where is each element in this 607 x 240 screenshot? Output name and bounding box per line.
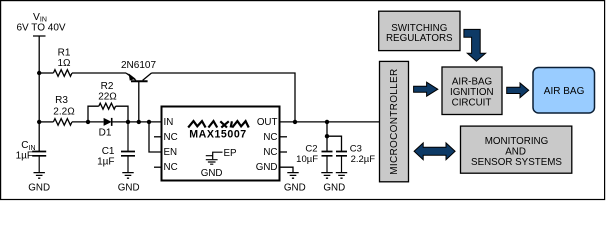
capacitor C1	[127, 122, 129, 172]
arrow microcontroller to monitoring (double)	[414, 143, 455, 160]
block MONITORING AND SENSOR SYSTEMS	[461, 126, 572, 173]
node C2/C3 branch	[325, 134, 329, 138]
ground	[206, 160, 218, 165]
diode D1	[104, 118, 112, 126]
svg-text:1Ω: 1Ω	[57, 58, 71, 69]
node R3/R2/D1	[86, 120, 90, 124]
transistor emitter arrow	[129, 73, 136, 80]
pin stub NC left	[154, 136, 162, 138]
svg-text:OUT: OUT	[257, 117, 278, 128]
node C2 top	[325, 120, 329, 124]
wire EN	[149, 122, 162, 152]
svg-text:REGULATORS: REGULATORS	[386, 33, 453, 44]
svg-text:2.2Ω: 2.2Ω	[53, 106, 75, 117]
svg-text:EN: EN	[164, 147, 178, 158]
svg-text:NC: NC	[263, 132, 277, 143]
pin stub NC left lower	[154, 166, 162, 168]
svg-text:GND: GND	[28, 183, 50, 194]
MAXIM logo	[188, 121, 249, 127]
resistor R3	[53, 119, 72, 126]
ground	[34, 173, 45, 179]
node base	[137, 120, 141, 124]
svg-text:GND: GND	[256, 162, 278, 173]
pin stub NC right	[280, 136, 288, 138]
svg-text:NC: NC	[164, 132, 178, 143]
ground	[287, 173, 298, 179]
wire	[39, 72, 53, 74]
block SWITCHING REGULATORS	[379, 11, 460, 50]
ground	[321, 173, 332, 179]
node EN	[147, 120, 151, 124]
wire R2 branch right	[116, 106, 128, 122]
svg-text:SENSOR SYSTEMS: SENSOR SYSTEMS	[471, 157, 562, 168]
svg-text:1µF: 1µF	[16, 151, 33, 162]
svg-text:AND: AND	[505, 147, 526, 158]
svg-text:R2: R2	[101, 81, 114, 92]
svg-text:NC: NC	[164, 162, 178, 173]
wire	[39, 121, 53, 123]
capacitor C3	[341, 156, 343, 173]
svg-text:CIRCUIT: CIRCUIT	[452, 98, 492, 109]
svg-text:GND: GND	[201, 168, 223, 179]
svg-text:6V TO 40V: 6V TO 40V	[16, 23, 65, 34]
EP exposed pad symbol	[206, 152, 223, 159]
IC U1 MAX15007 box	[162, 107, 280, 181]
wire C2 branch	[327, 122, 342, 151]
svg-text:D1: D1	[99, 128, 112, 139]
wire R2 branch	[88, 106, 99, 122]
resistor R1	[53, 70, 72, 77]
svg-text:GND: GND	[284, 183, 306, 194]
svg-text:2N6107: 2N6107	[121, 60, 156, 71]
svg-text:AIR-BAG: AIR-BAG	[452, 77, 492, 88]
svg-text:EP: EP	[224, 148, 238, 159]
svg-text:AIR BAG: AIR BAG	[544, 86, 585, 97]
block MICROCONTROLLER	[380, 61, 409, 181]
wire GND pin	[280, 167, 294, 172]
svg-text:R3: R3	[55, 95, 68, 106]
pin stub NC right lower	[280, 151, 288, 153]
svg-text:2.2µF: 2.2µF	[351, 154, 376, 165]
arrow switching regulators to ignition (bent)	[464, 29, 486, 61]
svg-text:GND: GND	[118, 183, 140, 194]
arrow microcontroller to ignition	[414, 82, 438, 96]
wire collector to OUT node	[152, 73, 296, 122]
arrow ignition to air bag	[507, 83, 529, 98]
wire OUT row	[280, 121, 380, 123]
svg-text:MONITORING: MONITORING	[485, 136, 549, 147]
svg-text:MICROCONTROLLER: MICROCONTROLLER	[389, 69, 400, 175]
node VIN/R3	[37, 120, 41, 124]
resistor R2	[99, 103, 116, 109]
wire	[72, 121, 104, 123]
node collector/OUT	[293, 120, 297, 124]
svg-text:MAX15007: MAX15007	[189, 129, 246, 141]
ground	[122, 173, 133, 179]
svg-text:GND: GND	[323, 183, 345, 194]
wire	[72, 72, 126, 74]
transistor Q1 2N6107	[126, 73, 136, 80]
node D1/C1	[126, 120, 130, 124]
junction dots	[37, 71, 329, 139]
svg-text:NC: NC	[263, 147, 277, 158]
svg-text:IN: IN	[164, 117, 174, 128]
block AIR BAG	[533, 68, 595, 114]
svg-text:IGNITION: IGNITION	[450, 87, 494, 98]
svg-text:10µF: 10µF	[296, 154, 318, 165]
svg-text:22Ω: 22Ω	[98, 92, 117, 103]
block AIR-BAG IGNITION CIRCUIT	[442, 67, 502, 115]
capacitor C2	[326, 156, 328, 173]
node VIN input terminal	[33, 36, 46, 151]
node VIN/R1	[37, 71, 41, 75]
svg-text:1µF: 1µF	[97, 156, 114, 167]
capacitor CIN	[38, 156, 40, 173]
ground	[336, 173, 347, 179]
svg-text:C1: C1	[102, 146, 115, 157]
wire	[112, 121, 162, 123]
